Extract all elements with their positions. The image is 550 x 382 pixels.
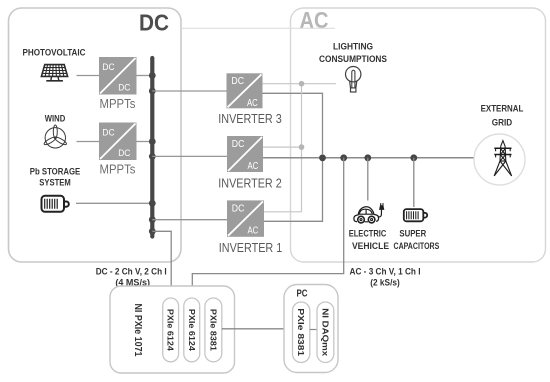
svg-text:ELECTRIC: ELECTRIC [349, 229, 387, 239]
node PV on DC bus [149, 72, 156, 79]
wire PV to MPPT1 [77, 75, 100, 77]
node AC measurement on AC bus [340, 154, 347, 161]
wire AC measurement to DAQ module 2 [192, 158, 343, 298]
wire battery to DC bus [76, 202, 151, 204]
svg-text:AC - 3 Ch V, 1 Ch I: AC - 3 Ch V, 1 Ch I [350, 267, 421, 278]
light bulb icon [346, 67, 361, 93]
node inverter2 feed on DC bus [149, 153, 156, 160]
wire DC bus to inverter 3 [152, 90, 226, 92]
svg-text:INVERTER 3: INVERTER 3 [218, 112, 282, 126]
svg-text:PHOTOVOLTAIC: PHOTOVOLTAIC [23, 48, 86, 58]
solar panel icon [41, 65, 67, 81]
module PXIe 6124 (DC) [163, 298, 179, 362]
wire AC bus to super capacitors [413, 158, 415, 207]
wire chassis to PC [222, 328, 293, 330]
svg-text:AC: AC [248, 160, 259, 172]
module PXIe 8381 (chassis) [205, 298, 222, 362]
wire between PC modules [310, 329, 317, 331]
wind turbine icon [43, 125, 67, 148]
super capacitors icon [404, 209, 427, 221]
svg-text:Pb STORAGE: Pb STORAGE [30, 167, 81, 177]
svg-text:DC: DC [102, 62, 114, 73]
svg-text:NI PXIe 1071: NI PXIe 1071 [132, 304, 143, 357]
AC bus [263, 157, 476, 159]
svg-text:AC: AC [300, 7, 329, 33]
chassis NI PXIe 1071 box [110, 286, 235, 373]
wire DC bus to inverter 1 [152, 219, 227, 221]
electric vehicle icon [354, 203, 384, 223]
module PXIe 8381 (PC) [293, 302, 310, 363]
svg-text:DC: DC [232, 202, 245, 214]
svg-text:MPPTs: MPPTs [100, 163, 136, 177]
node inverter1 feed on DC bus [149, 216, 156, 223]
svg-text:INVERTER 2: INVERTER 2 [218, 177, 282, 191]
battery icon Pb storage [42, 196, 69, 212]
svg-text:PXIe 8381: PXIe 8381 [296, 308, 306, 356]
svg-text:CONSUMPTIONS: CONSUMPTIONS [319, 54, 387, 64]
svg-text:DC: DC [118, 83, 130, 94]
svg-text:MPPTs: MPPTs [100, 97, 136, 111]
faint link wire at top [181, 27, 335, 29]
node electric vehicle on AC bus [364, 154, 371, 161]
svg-text:PC: PC [297, 288, 308, 300]
svg-text:DC: DC [118, 148, 130, 159]
svg-text:LIGHTING: LIGHTING [333, 42, 373, 52]
svg-text:DC - 2 Ch V, 2 Ch I: DC - 2 Ch V, 2 Ch I [96, 267, 167, 278]
node wind on DC bus [149, 138, 156, 145]
DC bus [150, 58, 154, 237]
pylon icon [494, 141, 511, 176]
svg-text:PXIe 8381: PXIe 8381 [208, 309, 218, 351]
wire inverter 3 output to AC bus [263, 93, 323, 154]
wire wind to MPPT2 [77, 141, 100, 143]
svg-text:PXIe 6124: PXIe 6124 [166, 309, 176, 351]
converter MPPT1 DC/DC [99, 57, 137, 95]
wire DC bus to inverter 2 [152, 155, 227, 157]
wire MPPT2 to DC bus [137, 141, 152, 143]
svg-text:DC: DC [102, 128, 114, 139]
PC box [284, 285, 338, 373]
wire AC bus to EV [367, 158, 369, 201]
module PXIe 6124 (AC) [184, 298, 200, 362]
svg-text:EXTERNAL: EXTERNAL [481, 104, 524, 114]
module NI DAQmx [317, 302, 334, 363]
svg-text:GRID: GRID [492, 118, 513, 128]
voltage tap inverter 2 [263, 146, 302, 148]
wire MPPT1 to DC bus [137, 75, 152, 77]
wire DC measurement to DAQ module 1 [152, 231, 171, 298]
svg-text:CAPACITORS: CAPACITORS [394, 241, 440, 251]
tap junction lower [299, 144, 305, 150]
inverter 1 DC/AC [227, 200, 264, 236]
svg-text:INVERTER 1: INVERTER 1 [219, 241, 283, 255]
voltage tap inverter 3 [263, 83, 337, 85]
tap junction upper [299, 81, 305, 87]
voltage tap inverter 1 [264, 211, 302, 213]
svg-text:WIND: WIND [45, 114, 66, 124]
svg-text:VEHICLE: VEHICLE [352, 241, 389, 251]
DC zone box [9, 8, 182, 262]
svg-text:(2 kS/s): (2 kS/s) [370, 278, 400, 289]
inverter 2 DC/AC [227, 136, 263, 172]
svg-text:SUPER: SUPER [399, 229, 426, 239]
node battery on DC bus [149, 200, 156, 207]
converter MPPT2 DC/DC [99, 123, 137, 161]
node inverters joint on AC bus [319, 154, 326, 161]
svg-text:DC: DC [139, 10, 169, 36]
svg-text:DC: DC [231, 75, 244, 87]
external grid circle [474, 134, 525, 185]
svg-text:PXIe 6124: PXIe 6124 [187, 309, 197, 351]
node super capacitors on AC bus [410, 154, 417, 161]
node DC measurement tap [149, 228, 156, 235]
svg-text:NI DAQmx: NI DAQmx [320, 308, 330, 356]
wire inverter 1 output to AC bus [264, 161, 323, 221]
voltage tap riser [301, 84, 303, 212]
svg-text:DC: DC [232, 138, 245, 150]
svg-text:AC: AC [247, 97, 258, 109]
AC zone box [291, 8, 546, 262]
svg-text:AC: AC [248, 224, 259, 236]
inverter 3 DC/AC [227, 73, 263, 109]
svg-text:SYSTEM: SYSTEM [39, 178, 70, 188]
node inverter3 feed on DC bus [149, 88, 156, 95]
